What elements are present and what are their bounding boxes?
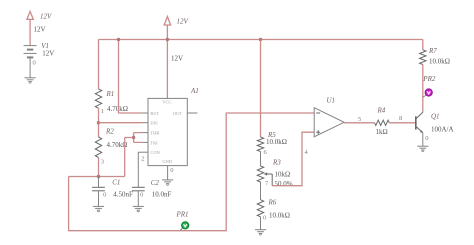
svg-text:4.70kΩ: 4.70kΩ bbox=[107, 105, 128, 113]
svg-text:0: 0 bbox=[103, 192, 106, 199]
svg-text:12V: 12V bbox=[34, 26, 46, 34]
svg-text:R1: R1 bbox=[106, 90, 115, 98]
op-amp U1 bbox=[314, 108, 344, 137]
wire: top 12V power rail bbox=[99, 39, 423, 41]
svg-text:10.0nF: 10.0nF bbox=[152, 190, 172, 198]
svg-text:5: 5 bbox=[358, 116, 361, 123]
svg-text:8: 8 bbox=[399, 115, 402, 122]
ground (V1) bbox=[25, 77, 36, 79]
wire: R6 to ground bbox=[260, 217, 262, 230]
junction: node3 / C1 bbox=[97, 175, 100, 178]
svg-text:4.50nF: 4.50nF bbox=[113, 190, 133, 198]
svg-text:PR2: PR2 bbox=[422, 75, 436, 83]
wire: R7 to Q1 collector bbox=[422, 65, 424, 111]
probe PR2 bbox=[423, 95, 426, 97]
svg-text:6: 6 bbox=[264, 149, 268, 156]
svg-text:7: 7 bbox=[265, 180, 269, 187]
svg-text:12V: 12V bbox=[177, 18, 189, 26]
power symbol VCC 12V (mid) bbox=[164, 17, 170, 26]
svg-text:DIS: DIS bbox=[150, 121, 158, 126]
svg-text:OUT: OUT bbox=[173, 111, 182, 116]
wire: op-amp out to R4 (node 5) bbox=[344, 122, 375, 124]
potentiometer R3 bbox=[257, 166, 263, 182]
resistor R5 bbox=[257, 137, 263, 152]
ground (R6) bbox=[255, 229, 266, 231]
svg-text:0: 0 bbox=[33, 60, 36, 67]
svg-text:R4: R4 bbox=[377, 107, 386, 115]
wire: CON pin to C2 bbox=[138, 152, 141, 187]
svg-text:THR: THR bbox=[150, 131, 159, 136]
capacitor C1 bbox=[92, 186, 105, 188]
svg-text:RST: RST bbox=[150, 111, 159, 116]
wire: node1 to DIS pin bbox=[99, 122, 142, 124]
junction: rail/VCC arrow bbox=[166, 38, 169, 41]
svg-text:10.0kΩ: 10.0kΩ bbox=[269, 212, 290, 220]
wire: rail down to R1 bbox=[98, 40, 100, 90]
svg-text:2: 2 bbox=[141, 155, 144, 162]
svg-text:TRI: TRI bbox=[150, 140, 158, 145]
wire: R5 to R3 bbox=[260, 152, 262, 167]
wire: THR-TRI tie bbox=[134, 133, 142, 143]
junction: rail/R5 column bbox=[259, 38, 262, 41]
resistor R4 bbox=[375, 120, 390, 125]
svg-text:1kΩ: 1kΩ bbox=[376, 128, 388, 136]
probe PR1 bbox=[180, 228, 182, 230]
power symbol VCC 12V (left) bbox=[27, 12, 33, 20]
resistor R1 bbox=[95, 89, 101, 108]
svg-text:10.0kΩ: 10.0kΩ bbox=[429, 58, 450, 66]
resistor R7 bbox=[420, 50, 426, 65]
wire: R1 to R2 (node 1) bbox=[98, 108, 100, 137]
junction: THR/TRI bbox=[132, 136, 135, 139]
junction: rail/RST bbox=[117, 38, 120, 41]
wire: rail down to R7 bbox=[422, 40, 424, 50]
resistor R2 bbox=[95, 137, 101, 158]
battery V1 bbox=[24, 45, 37, 47]
wire: vcc arrow to V1 bbox=[29, 19, 31, 45]
svg-text:0: 0 bbox=[425, 135, 428, 142]
svg-text:R2: R2 bbox=[105, 128, 114, 136]
svg-text:50.0%: 50.0% bbox=[275, 180, 293, 188]
wire: rail to R5 bbox=[260, 40, 262, 138]
wire: R4 to Q1 base (node 8) bbox=[389, 122, 416, 124]
wire: THR/TRI down to node 3 bbox=[125, 138, 134, 177]
svg-text:C2: C2 bbox=[151, 179, 160, 187]
svg-text:0: 0 bbox=[263, 214, 266, 221]
wire: R3 to R6 bbox=[260, 182, 262, 200]
wire: node3 to C1 bbox=[98, 177, 100, 188]
svg-text:Q1: Q1 bbox=[431, 113, 440, 121]
svg-text:R3: R3 bbox=[272, 159, 281, 167]
svg-text:U1: U1 bbox=[327, 97, 336, 105]
svg-text:3: 3 bbox=[101, 158, 104, 165]
svg-text:R6: R6 bbox=[268, 199, 277, 207]
svg-text:VCC: VCC bbox=[162, 100, 171, 105]
ground (C2) bbox=[133, 205, 144, 207]
wire: node 3 horizontal bbox=[69, 176, 125, 178]
svg-text:PR1: PR1 bbox=[176, 210, 189, 218]
svg-text:1: 1 bbox=[101, 108, 104, 115]
svg-text:CON: CON bbox=[150, 150, 160, 155]
junction: node1/DIS bbox=[97, 121, 100, 124]
svg-text:100A/A: 100A/A bbox=[431, 126, 454, 134]
svg-text:0: 0 bbox=[140, 191, 143, 198]
svg-text:10.0kΩ: 10.0kΩ bbox=[266, 138, 287, 146]
svg-text:GND: GND bbox=[162, 159, 172, 164]
ground (Q1) bbox=[417, 145, 428, 147]
svg-text:12V: 12V bbox=[40, 13, 52, 21]
ground (C1) bbox=[93, 205, 104, 207]
svg-text:C1: C1 bbox=[112, 179, 120, 187]
svg-text:12V: 12V bbox=[42, 50, 54, 58]
op-amp timer IC A1 (555) bbox=[148, 98, 187, 165]
wire: rail to RST pin bbox=[119, 40, 142, 114]
wire: R2 to node 3 bbox=[98, 158, 100, 177]
wire: vcc arrow to IC VCC pin bbox=[166, 25, 168, 98]
ground (IC) bbox=[162, 179, 173, 181]
capacitor C2 bbox=[132, 186, 145, 188]
wire: V1 to ground bbox=[29, 57, 31, 77]
svg-text:10kΩ: 10kΩ bbox=[275, 170, 291, 178]
svg-text:0: 0 bbox=[170, 167, 173, 174]
wire: R3 wiper to op-amp plus (node 4) bbox=[272, 132, 314, 186]
svg-text:12V: 12V bbox=[171, 55, 183, 63]
svg-text:4: 4 bbox=[305, 149, 309, 156]
resistor R6 bbox=[257, 200, 263, 217]
wire: left loop down and across bottom to op-amp minus bbox=[69, 113, 315, 231]
svg-text:A1: A1 bbox=[190, 87, 199, 95]
svg-text:R7: R7 bbox=[428, 47, 437, 55]
transistor Q1 bbox=[415, 116, 417, 129]
